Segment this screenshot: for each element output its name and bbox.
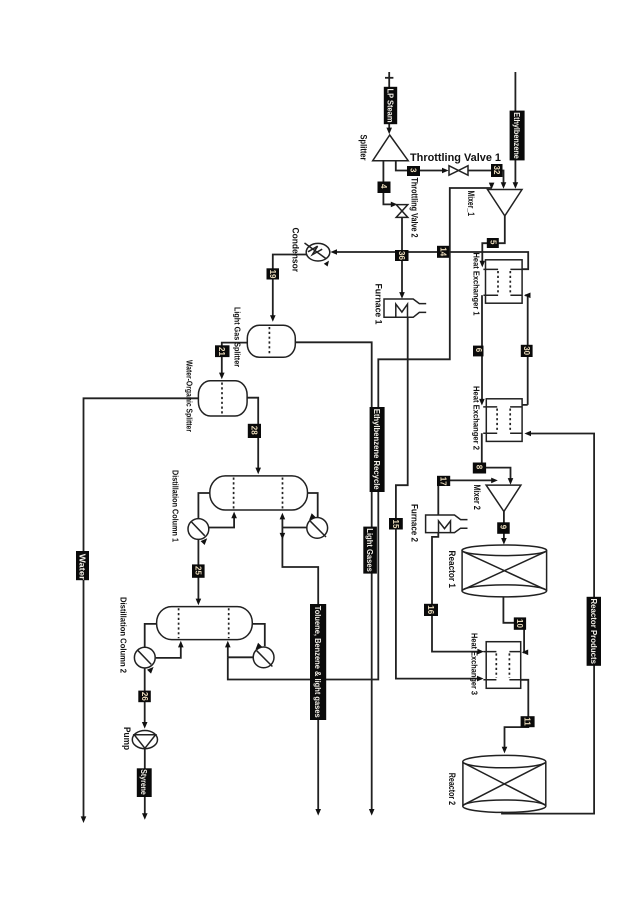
svg-text:32: 32 — [492, 166, 501, 175]
node Ethylbenzene — [510, 111, 525, 161]
svg-text:11: 11 — [523, 717, 532, 726]
stream label 25 — [192, 564, 205, 577]
stream label 3 — [407, 166, 420, 176]
wire column 2 distillate to condenser circle — [145, 624, 157, 648]
svg-text:30: 30 — [522, 346, 531, 355]
wire stream 10: reactor 1 to heat exchanger 3 — [503, 597, 528, 656]
wire reactor products: reactor 2 to heat exchanger 2 — [502, 431, 594, 814]
wire stream 4: splitter to valve 2 — [383, 161, 397, 208]
wire stream 3: splitter to valve 1 to mixer 1 — [396, 161, 507, 189]
svg-text:Splitter: Splitter — [358, 135, 369, 161]
svg-text:28: 28 — [250, 426, 259, 435]
stream label 6 — [473, 346, 484, 357]
svg-text:15: 15 — [391, 520, 400, 529]
light gas splitter drum — [247, 325, 295, 357]
wire stream 16: furnace 2 to heat exchanger 3 — [432, 533, 484, 655]
wire stream 25: column 1 condenser to column 2 — [196, 540, 202, 606]
svg-text:Throttling Valve 2: Throttling Valve 2 — [410, 178, 420, 238]
wire light gases: splitter to bottom arrow — [295, 342, 374, 815]
stream label 36 — [395, 250, 409, 261]
stream label 26 — [138, 691, 151, 703]
node Toluene Benzene and light gases — [310, 604, 326, 720]
svg-text:6: 6 — [474, 348, 483, 353]
mixer 2 triangle — [486, 485, 521, 511]
heat exchanger 1 — [483, 260, 522, 303]
node Light Gases — [363, 527, 377, 574]
stream label 19 — [267, 268, 280, 279]
node Ethylbenzene Recycle — [370, 407, 385, 492]
svg-text:Reactor 1: Reactor 1 — [446, 551, 457, 589]
reactor 2 — [463, 755, 546, 812]
wire stream 19: condensor to light gas splitter — [270, 255, 307, 322]
svg-text:Light Gases: Light Gases — [365, 528, 375, 572]
heat exchanger 2 — [483, 399, 522, 442]
wire Ethylbenzene inlet — [513, 72, 519, 189]
wire stream 11: heat exchanger 3 to reactor 2 — [502, 680, 529, 754]
wire column 1 to reboiler circle — [308, 493, 318, 517]
svg-text:8: 8 — [475, 465, 484, 470]
wire stream 30: heat exchanger 2 to heat exchanger 1 — [522, 293, 530, 405]
svg-text:Pump: Pump — [121, 727, 132, 750]
svg-text:Reactor 2: Reactor 2 — [446, 773, 457, 805]
stream label 17 — [437, 476, 450, 486]
svg-text:Distillation Column 2: Distillation Column 2 — [119, 597, 129, 673]
stream label 21 — [215, 345, 230, 357]
wire column 2 to reboiler circle — [252, 624, 264, 646]
svg-text:25: 25 — [194, 566, 203, 575]
stream label 10 — [514, 617, 526, 629]
svg-text:19: 19 — [268, 270, 277, 279]
distillation column 2 drum — [157, 607, 253, 640]
svg-text:14: 14 — [439, 247, 448, 256]
distillation column 1 drum — [210, 476, 308, 510]
svg-text:Reactor Products: Reactor Products — [589, 599, 599, 665]
svg-text:Water: Water — [78, 554, 88, 581]
throttling valve 1 bowtie — [449, 166, 468, 176]
column 1 condenser circle — [188, 519, 209, 545]
svg-text:Ethylbenzene: Ethylbenzene — [512, 112, 522, 159]
condensor circle with zigzag — [305, 243, 331, 267]
svg-text:17: 17 — [439, 477, 448, 486]
throttling valve 2 bowtie — [396, 205, 408, 218]
wire stream 28: water-organic splitter to column 1 — [247, 398, 261, 475]
svg-text:Toluene, Benzene & light gases: Toluene, Benzene & light gases — [313, 606, 323, 718]
wire stream 9: mixer 2 to reactor 1 — [501, 512, 507, 545]
svg-text:36: 36 — [397, 251, 406, 260]
svg-text:Heat Exchanger 2: Heat Exchanger 2 — [472, 386, 482, 450]
column 1 reboiler circle — [307, 513, 328, 538]
node Reactor Products — [587, 597, 601, 666]
wire stream 8: heat exchanger 2 to mixer 2 — [482, 433, 514, 484]
wire styrene: pump to bottom arrow — [142, 749, 148, 820]
svg-text:21: 21 — [217, 347, 226, 356]
furnace 2 — [426, 515, 468, 533]
wire water: splitter to bottom arrow — [81, 398, 199, 823]
svg-text:26: 26 — [140, 692, 149, 701]
splitter (tee) triangle — [373, 135, 409, 161]
wire column 1 reboiler return and toluene benzene product — [280, 513, 321, 816]
mixer 1 triangle — [488, 190, 523, 216]
wire stream 5: mixer 1 to heat exchanger 1 — [480, 216, 505, 268]
wire stream 6: heat exchanger 1 to heat exchanger 2 — [479, 295, 485, 405]
svg-text:Distillation Column 1: Distillation Column 1 — [171, 470, 181, 542]
svg-text:16: 16 — [426, 605, 435, 614]
reactor 1 — [462, 545, 547, 597]
stream label 8 — [473, 463, 486, 474]
svg-text:9: 9 — [499, 525, 508, 530]
wire column 1 reflux return — [209, 512, 237, 528]
column 2 reboiler circle — [253, 643, 274, 668]
wire stream 14: heat exchanger 1 to condensor — [330, 249, 528, 269]
svg-text:Heat Exchanger 3: Heat Exchanger 3 — [470, 633, 480, 695]
stream label 30 — [521, 345, 533, 357]
stream label 32 — [491, 164, 503, 177]
svg-text:Ethylbenzene Recycle: Ethylbenzene Recycle — [372, 409, 382, 490]
water-organic splitter drum — [198, 381, 247, 416]
heat exchanger 3 — [483, 642, 520, 689]
wire stream 15: furnace 1 to heat exchanger 3 — [396, 317, 484, 681]
node Water — [76, 551, 89, 581]
svg-text:Styrene: Styrene — [139, 769, 149, 795]
wire stream 26: column 2 condenser to pump — [142, 668, 148, 729]
svg-text:LP Steam: LP Steam — [386, 89, 396, 123]
node LP Steam — [384, 87, 397, 124]
wire stream 17: furnace 2 to mixer 2 — [438, 478, 498, 515]
column 2 condenser circle — [134, 647, 155, 673]
svg-text:Furnace 2: Furnace 2 — [409, 504, 420, 542]
wire stream 21: light gas splitter to water-organic splitter — [219, 343, 247, 380]
wire stream 36: valve 2 to furnace 1 — [399, 217, 405, 298]
svg-text:Condensor: Condensor — [290, 228, 301, 273]
wire ethylbenzene recycle: column 2 reboiler to mixer 1 — [225, 183, 494, 680]
pump circle with triangle — [132, 731, 157, 749]
svg-text:Water-Organic Splitter: Water-Organic Splitter — [185, 360, 194, 432]
stream label 5 — [487, 238, 499, 248]
svg-text:3: 3 — [409, 168, 418, 173]
svg-text:Mixer 2: Mixer 2 — [472, 485, 482, 510]
svg-text:4: 4 — [379, 184, 388, 189]
wire column 2 reflux return — [156, 641, 184, 658]
node Styrene — [137, 768, 152, 797]
stream label 16 — [424, 604, 438, 616]
svg-text:Mixer_1: Mixer_1 — [465, 191, 476, 217]
stream label 15 — [389, 518, 403, 530]
svg-text:10: 10 — [515, 619, 524, 628]
stream label 9 — [497, 522, 510, 534]
svg-text:5: 5 — [488, 240, 497, 245]
stream label 28 — [248, 424, 261, 438]
svg-text:Heat Exchanger 1: Heat Exchanger 1 — [472, 253, 482, 316]
svg-text:Throttling Valve 1: Throttling Valve 1 — [410, 152, 501, 164]
wire column 1 distillate to condenser circle — [198, 493, 209, 518]
stream label 11 — [521, 716, 535, 727]
stream label 14 — [437, 246, 449, 258]
svg-text:Furnace 1: Furnace 1 — [373, 284, 384, 326]
svg-text:Light Gas Splitter: Light Gas Splitter — [233, 307, 243, 368]
wire LP Steam inlet stub — [385, 72, 393, 134]
stream label 4 — [378, 182, 391, 194]
furnace 1 — [384, 299, 426, 317]
